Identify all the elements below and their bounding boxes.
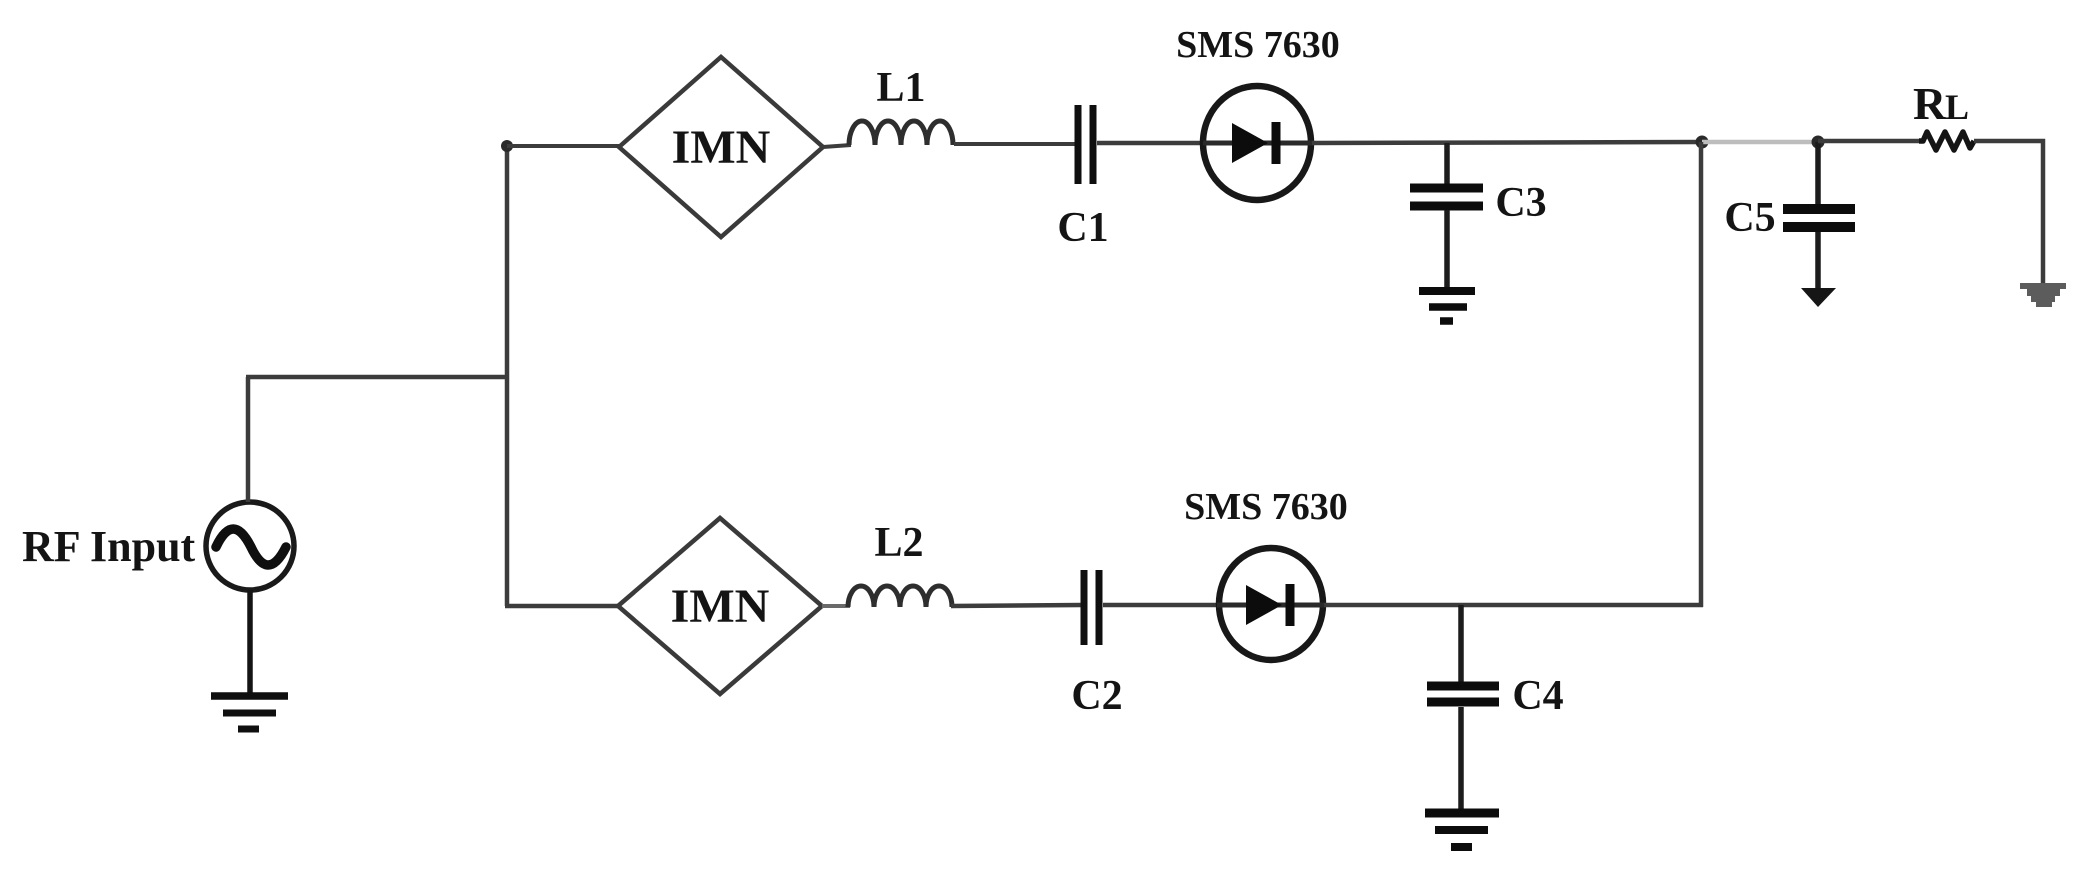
node input split [501, 140, 513, 152]
svg-text:L2: L2 [874, 520, 923, 566]
svg-text:SMS 7630: SMS 7630 [1176, 24, 1340, 66]
IMN block (top) [619, 57, 823, 237]
wire L2 to C2 [951, 605, 1081, 606]
wire IMN2 to L2 [822, 604, 850, 608]
resistor RL [1919, 132, 1974, 150]
wire right vertical (node A down to bottom branch) [1699, 142, 1704, 607]
svg-text:IMN: IMN [672, 121, 771, 174]
svg-text:C1: C1 [1057, 205, 1108, 251]
svg-text:C5: C5 [1724, 195, 1775, 241]
wire node B to RL [1818, 139, 1920, 144]
wire (light) node A to node B [1702, 140, 1818, 145]
wire RL to right corner and down [1974, 141, 2043, 285]
diode D1 SMS 7630 [1203, 86, 1312, 200]
svg-text:C3: C3 [1495, 180, 1546, 226]
capacitor C5 [1783, 142, 1855, 289]
svg-text:L1: L1 [876, 65, 925, 111]
inductor L1 [849, 121, 953, 145]
wire D1 to node A [1312, 142, 1702, 143]
ground (RL stepped) [2020, 283, 2066, 307]
capacitor C4 [1427, 605, 1499, 810]
node B [1812, 136, 1825, 149]
wire D2 to right corner [1324, 603, 1703, 608]
inductor L2 [848, 586, 952, 607]
capacitor C1 [1078, 105, 1093, 184]
node A [1696, 136, 1709, 149]
wire node to IMN1 [507, 144, 621, 148]
wire L1 to C1 [954, 142, 1075, 146]
wire C1 to diode D1 [1097, 141, 1206, 146]
RF source V1 [206, 502, 294, 590]
capacitor C3 [1410, 143, 1483, 288]
diode D2 SMS 7630 [1217, 548, 1324, 660]
ground (C4) [1425, 813, 1499, 847]
wire C2 to diode D2 [1103, 603, 1219, 608]
wire IMN1 to L1 [823, 145, 851, 147]
svg-text:IMN: IMN [671, 580, 770, 633]
wire source top [246, 377, 251, 502]
svg-text:C2: C2 [1071, 673, 1122, 719]
svg-text:L: L [1945, 87, 1969, 127]
ground (C3) [1419, 291, 1475, 321]
svg-text:R: R [1913, 78, 1947, 129]
ground (C5 arrow) [1801, 288, 1836, 307]
wire horizontal to main vertical [246, 375, 509, 380]
wire corner to IMN2 [505, 604, 620, 609]
capacitor C2 [1084, 570, 1099, 645]
wire source bottom [247, 590, 253, 697]
IMN block (bottom) [618, 518, 822, 694]
svg-text:SMS 7630: SMS 7630 [1184, 486, 1348, 528]
svg-text:RF Input: RF Input [22, 522, 196, 571]
wire main vertical [505, 146, 510, 606]
ground (source) [211, 696, 288, 729]
svg-text:C4: C4 [1512, 673, 1563, 719]
